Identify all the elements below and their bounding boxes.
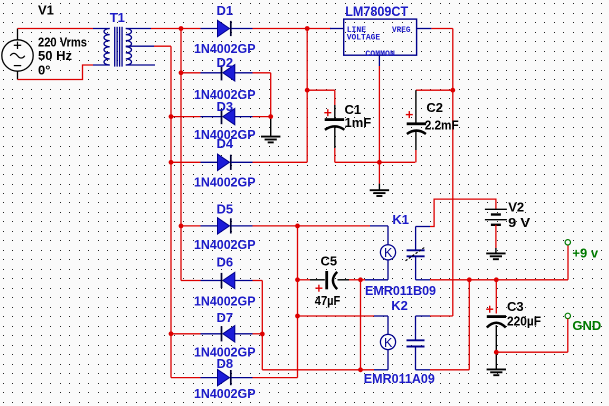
svg-text:V2: V2 xyxy=(508,199,524,214)
svg-text:D3: D3 xyxy=(217,99,234,114)
svg-text:C5: C5 xyxy=(321,254,338,269)
svg-text:9 V: 9 V xyxy=(508,215,530,230)
svg-text:C2: C2 xyxy=(426,100,443,115)
svg-text:V1: V1 xyxy=(38,2,54,17)
svg-text:D8: D8 xyxy=(217,356,234,371)
svg-text:+9 v: +9 v xyxy=(572,246,598,261)
svg-text:47µF: 47µF xyxy=(315,293,341,308)
svg-text:C3: C3 xyxy=(507,299,524,314)
svg-text:D6: D6 xyxy=(217,255,234,270)
svg-text:50 Hz: 50 Hz xyxy=(38,48,72,63)
svg-text:EMR011B09: EMR011B09 xyxy=(365,283,436,298)
svg-text:K: K xyxy=(384,246,393,260)
svg-text:220µF: 220µF xyxy=(507,314,541,329)
svg-text:1N4002GP: 1N4002GP xyxy=(194,175,256,190)
svg-text:1mF: 1mF xyxy=(345,115,372,130)
svg-text:GND: GND xyxy=(572,318,601,333)
svg-text:D2: D2 xyxy=(217,55,234,70)
svg-text:VREG: VREG xyxy=(392,25,411,35)
svg-text:LM7809CT: LM7809CT xyxy=(345,3,408,19)
svg-text:D4: D4 xyxy=(217,136,234,151)
svg-text:COMMON: COMMON xyxy=(365,49,395,59)
svg-text:T1: T1 xyxy=(110,10,125,25)
svg-text:EMR011A09: EMR011A09 xyxy=(364,371,435,386)
svg-text:0°: 0° xyxy=(38,62,50,77)
svg-text:1N4002GP: 1N4002GP xyxy=(194,294,256,309)
svg-text:D5: D5 xyxy=(217,202,234,217)
svg-text:K1: K1 xyxy=(392,212,409,227)
svg-text:VOLTAGE: VOLTAGE xyxy=(347,33,381,43)
svg-text:1N4002GP: 1N4002GP xyxy=(194,237,256,252)
svg-text:D7: D7 xyxy=(217,310,234,325)
svg-text:K2: K2 xyxy=(391,298,408,313)
svg-text:1N4002GP: 1N4002GP xyxy=(194,386,256,401)
svg-text:K: K xyxy=(384,336,393,350)
svg-text:D1: D1 xyxy=(217,3,234,18)
svg-text:2.2mF: 2.2mF xyxy=(425,117,459,132)
